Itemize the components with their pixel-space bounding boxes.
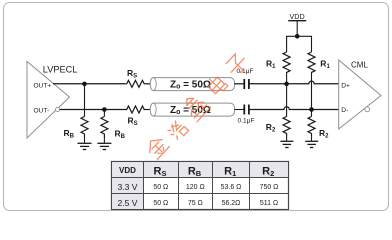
svg-text:56.2Ω: 56.2Ω bbox=[222, 200, 241, 207]
capacitor C2 0.1uF bbox=[238, 105, 255, 125]
resistor R1a (left, VDD to D+) bbox=[266, 52, 290, 73]
node VDD junction dot bbox=[295, 34, 300, 39]
svg-text:RS: RS bbox=[127, 68, 137, 80]
svg-text:0.1μF: 0.1μF bbox=[238, 118, 255, 125]
watermark char jin bbox=[144, 134, 169, 159]
svg-text:R1: R1 bbox=[320, 59, 330, 71]
wire RB2 drop bbox=[103, 110, 105, 117]
watermark char xin bbox=[180, 91, 210, 121]
svg-text:D+: D+ bbox=[341, 82, 350, 89]
resistor RB2 bbox=[101, 117, 126, 141]
wire TL2 to C2 bbox=[235, 109, 245, 111]
inversion bubble on OUT- bbox=[56, 107, 60, 111]
inversion bubble CML bbox=[365, 107, 370, 112]
svg-text:RB: RB bbox=[64, 128, 75, 140]
svg-text:RS: RS bbox=[128, 116, 138, 128]
table header R2 bbox=[262, 166, 274, 179]
wire RB1 drop bbox=[84, 84, 86, 117]
table header VDD bbox=[119, 166, 136, 175]
svg-text:2.5 V: 2.5 V bbox=[117, 198, 137, 208]
wire RS1 to TL1 bbox=[146, 83, 151, 85]
wire OUT+ to Rs bbox=[53, 83, 125, 85]
ground RB2 bbox=[97, 137, 111, 150]
ground R2b bbox=[305, 137, 318, 148]
svg-text:511 Ω: 511 Ω bbox=[260, 200, 278, 207]
svg-text:LVPECL: LVPECL bbox=[43, 65, 78, 75]
wire R1a to D+ and down through D- to R2a bbox=[286, 73, 288, 117]
table header RS bbox=[154, 166, 167, 179]
svg-text:CML: CML bbox=[351, 61, 368, 70]
resistor RB1 bbox=[64, 117, 89, 140]
svg-text:750 Ω: 750 Ω bbox=[260, 184, 279, 191]
pin OUT+ bbox=[34, 82, 52, 89]
svg-text:VDD: VDD bbox=[119, 166, 136, 175]
table of termination values bbox=[112, 162, 289, 210]
svg-text:RB: RB bbox=[115, 129, 126, 141]
transmission line TL1 Zo=50 bbox=[150, 78, 234, 91]
table row 2.5V bbox=[117, 198, 278, 208]
wire C1 to D+ with hop over right branch bbox=[249, 81, 339, 84]
table header RB bbox=[188, 166, 202, 179]
svg-text:75 Ω: 75 Ω bbox=[188, 200, 203, 207]
ground RB1 bbox=[78, 137, 92, 150]
svg-text:0.1μF: 0.1μF bbox=[237, 68, 254, 75]
svg-text:R2: R2 bbox=[319, 128, 329, 140]
ground R2a bbox=[280, 137, 293, 148]
watermark char luo bbox=[167, 120, 189, 142]
transmission line TL2 Zo=50 bbox=[150, 103, 234, 116]
watermark char dian bbox=[205, 74, 228, 97]
wire TL1 to C1 bbox=[235, 83, 245, 85]
op-amp U2 CML receiver bbox=[339, 60, 381, 129]
wire OUT- to Rs bbox=[60, 109, 125, 111]
node A junction dot OUT+ bbox=[82, 82, 87, 87]
VDD supply bbox=[288, 12, 306, 36]
wire R1b down through D+ hop to D- then R2b bbox=[311, 73, 313, 117]
node B junction dot OUT- bbox=[102, 107, 107, 112]
svg-text:50 Ω: 50 Ω bbox=[153, 200, 168, 207]
svg-text:120 Ω: 120 Ω bbox=[186, 184, 205, 191]
table header R1 bbox=[224, 166, 236, 179]
resistor R1b (right, VDD to D-) bbox=[308, 52, 330, 73]
pin OUT- bbox=[34, 107, 50, 114]
pin D+ bbox=[341, 82, 350, 89]
resistor RS1 (series, OUT+ line) bbox=[125, 68, 146, 87]
resistor RS2 (series, OUT- line) bbox=[125, 106, 146, 127]
node junction dot right branch on D- bbox=[309, 107, 314, 112]
table row 3.3V bbox=[117, 182, 278, 192]
svg-text:50 Ω: 50 Ω bbox=[153, 184, 168, 191]
watermark bbox=[144, 52, 249, 160]
pin D- bbox=[341, 107, 348, 114]
capacitor C1 0.1uF bbox=[237, 68, 254, 89]
wire RS2 to TL2 bbox=[146, 109, 151, 111]
op-amp U1 LVPECL driver bbox=[27, 62, 77, 139]
watermark char zi bbox=[224, 52, 249, 77]
svg-text:OUT-: OUT- bbox=[34, 107, 50, 114]
svg-text:3.3 V: 3.3 V bbox=[117, 182, 137, 192]
wire VDD rail bbox=[287, 36, 312, 52]
svg-text:R1: R1 bbox=[266, 59, 276, 71]
resistor R2b (right, D- to gnd) bbox=[308, 117, 329, 140]
svg-text:D-: D- bbox=[341, 107, 348, 114]
svg-text:53.6 Ω: 53.6 Ω bbox=[221, 184, 242, 191]
resistor R2a (left, D+ to gnd) bbox=[266, 117, 290, 137]
svg-text:OUT+: OUT+ bbox=[34, 82, 52, 89]
node junction dot left branch on D+ bbox=[284, 82, 289, 87]
svg-text:R2: R2 bbox=[266, 122, 276, 134]
svg-text:VDD: VDD bbox=[290, 12, 305, 21]
wire C2 to D- with hop over left branch bbox=[249, 107, 339, 110]
